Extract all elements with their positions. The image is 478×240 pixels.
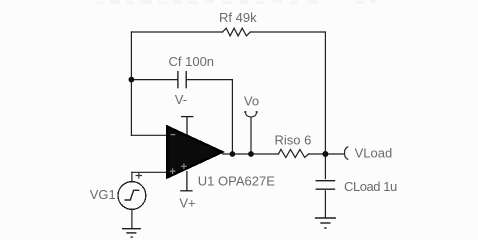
resistor Riso zigzag bbox=[279, 149, 309, 157]
svg-text:Cf 100n: Cf 100n bbox=[169, 54, 215, 69]
junction dot VLoad node bbox=[322, 151, 328, 157]
wire top feedback left bbox=[131, 31, 222, 33]
op-amp plus mark (supply) bbox=[181, 164, 187, 170]
faint cropped title remnant at top bbox=[96, 0, 377, 4]
wire inverting input bbox=[131, 134, 167, 136]
wire CLoad bottom bbox=[324, 191, 326, 218]
svg-text:CLoad 1u: CLoad 1u bbox=[344, 179, 397, 194]
capacitor CLoad plates bbox=[316, 181, 336, 190]
svg-text:V-: V- bbox=[175, 92, 187, 107]
probe Vo hook bbox=[244, 112, 257, 117]
wire op-amp output bbox=[223, 153, 279, 155]
resistor Rf zigzag bbox=[223, 28, 251, 36]
wire Vo stem bbox=[250, 118, 252, 154]
op-amp plus mark (input) bbox=[170, 168, 176, 174]
supply pin V+ (T-bar and lead) bbox=[180, 171, 192, 191]
wire Cf drop to output bbox=[231, 80, 233, 154]
source VG1 step waveform bbox=[125, 190, 140, 200]
source VG1 circle bbox=[118, 182, 146, 210]
wire non-inverting input bbox=[132, 171, 168, 173]
capacitor Cf plates bbox=[178, 71, 186, 88]
junction dot Vo bbox=[248, 151, 254, 157]
wire right vertical (feedback to VLoad node) bbox=[324, 32, 326, 154]
svg-text:VLoad: VLoad bbox=[355, 145, 393, 160]
probe VLoad hook bbox=[345, 147, 349, 160]
wire Cf left bbox=[131, 79, 177, 81]
svg-text:Vo: Vo bbox=[244, 93, 259, 108]
wire Riso right bbox=[309, 153, 326, 155]
ground below VG1 bbox=[122, 229, 141, 237]
svg-text:Rf 49k: Rf 49k bbox=[219, 10, 257, 25]
supply pin V- (T-bar and lead) bbox=[181, 117, 193, 135]
svg-text:VG1: VG1 bbox=[90, 187, 116, 202]
junction dot inverting node bbox=[129, 77, 135, 83]
wire VLoad stub bbox=[325, 153, 343, 155]
svg-text:V+: V+ bbox=[179, 195, 195, 210]
ground below CLoad bbox=[315, 218, 336, 228]
wire inverting node vertical bbox=[130, 32, 132, 135]
wire VG1 up bbox=[131, 172, 133, 181]
wire CLoad top bbox=[324, 154, 326, 179]
junction dot output/Cf bbox=[230, 151, 236, 157]
wire top feedback right bbox=[250, 31, 325, 33]
wire VG1 down bbox=[131, 209, 133, 228]
svg-text:Riso 6: Riso 6 bbox=[275, 132, 312, 147]
source VG1 plus polarity bbox=[136, 172, 142, 178]
op-amp minus mark bbox=[171, 134, 176, 136]
wire Cf right bbox=[187, 79, 233, 81]
op-amp U1 triangle bbox=[167, 127, 222, 178]
svg-text:U1 OPA627E: U1 OPA627E bbox=[198, 173, 275, 188]
